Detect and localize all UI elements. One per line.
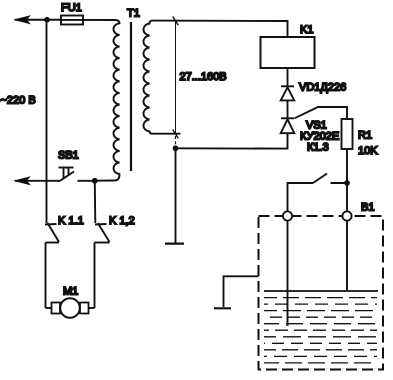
label B1 bbox=[361, 202, 374, 214]
arrow supply top bbox=[15, 16, 30, 24]
contact K1,2 bbox=[95, 223, 110, 308]
tank B1 dashed enclosure bbox=[259, 216, 384, 370]
label K1.3 bbox=[307, 142, 329, 154]
wire fuse to primary bbox=[83, 19, 115, 21]
electrode terminal right bbox=[342, 211, 351, 220]
svg-text:В1: В1 bbox=[361, 202, 374, 214]
svg-text:K 1.1: K 1.1 bbox=[58, 215, 84, 227]
water surface bbox=[264, 290, 378, 292]
electrode terminal left bbox=[283, 211, 292, 220]
water hatching bbox=[264, 298, 377, 363]
wire relay to diode bbox=[287, 68, 289, 86]
diode VD1 bbox=[281, 86, 295, 118]
label 27...160V bbox=[180, 71, 227, 83]
label K1.1 bbox=[58, 215, 84, 227]
svg-text:R1: R1 bbox=[358, 130, 372, 142]
wire L1 top supply line bbox=[15, 19, 61, 21]
label K1,2 bbox=[109, 215, 135, 227]
wire junction to right electrode bbox=[346, 183, 348, 212]
label VD1 D226 bbox=[299, 82, 346, 94]
svg-text:T1: T1 bbox=[127, 8, 140, 20]
label T1 bbox=[127, 8, 140, 20]
svg-text:K 1,2: K 1,2 bbox=[109, 215, 135, 227]
label FU1 bbox=[61, 2, 82, 14]
wire tank to ground bbox=[224, 276, 259, 307]
svg-text:К1.3: К1.3 bbox=[307, 142, 329, 154]
pushbutton SB1 bbox=[59, 168, 95, 181]
svg-text:27...160В: 27...160В bbox=[180, 71, 227, 83]
node top-left junction bbox=[44, 17, 50, 23]
wire thyristor gate to R1 bbox=[295, 107, 348, 119]
label SB1 bbox=[58, 150, 79, 162]
wire junction down to ground bbox=[175, 148, 177, 242]
svg-text:K1: K1 bbox=[300, 24, 313, 36]
label M1 bbox=[63, 286, 78, 298]
thyristor VS1 bbox=[281, 118, 295, 133]
transformer T1 secondary winding bbox=[144, 21, 181, 134]
label KU202E bbox=[300, 131, 339, 143]
wire left rail bbox=[46, 20, 48, 223]
transformer T1 primary winding bbox=[95, 20, 120, 181]
svg-text:FU1: FU1 bbox=[61, 2, 82, 14]
electrode rod left bbox=[287, 221, 289, 326]
label R1 bbox=[358, 130, 372, 142]
wire SB1 supply line bbox=[15, 180, 60, 182]
fuse FU1 bbox=[61, 16, 83, 25]
arrow supply bottom bbox=[15, 177, 30, 185]
label VS1 bbox=[306, 120, 327, 132]
contact K1.1 bbox=[45, 223, 59, 308]
wire secondary bottom to thyristor cathode bbox=[176, 133, 288, 148]
resistor R1 bbox=[342, 119, 353, 149]
relay K1 bbox=[261, 37, 315, 68]
svg-text:SB1: SB1 bbox=[58, 150, 79, 162]
contact K1.3 switch bbox=[288, 174, 348, 212]
transformer T1 core bbox=[130, 22, 132, 171]
svg-text:VD1Д226: VD1Д226 bbox=[299, 82, 346, 94]
svg-text:~220 В: ~220 В bbox=[1, 95, 36, 107]
node R1 switch junction bbox=[344, 180, 350, 186]
label ~220 V bbox=[1, 95, 36, 107]
electrode rod right bbox=[346, 221, 348, 291]
ground terminal 2 bbox=[214, 307, 231, 309]
label K1 bbox=[300, 24, 313, 36]
wire R1 to junction bbox=[346, 149, 348, 183]
wire SB1 junction down to K1,2 bbox=[94, 181, 97, 223]
node secondary bottom junction bbox=[173, 145, 179, 151]
wire secondary top to relay K1 bbox=[153, 21, 288, 37]
dimension line 27...160V bbox=[173, 17, 179, 146]
node SB1 junction bbox=[92, 178, 98, 184]
svg-text:10K: 10K bbox=[358, 145, 378, 157]
motor M1 bbox=[46, 298, 95, 318]
label 10K bbox=[358, 145, 378, 157]
ground terminal 1 bbox=[165, 243, 184, 245]
svg-text:M1: M1 bbox=[63, 286, 78, 298]
